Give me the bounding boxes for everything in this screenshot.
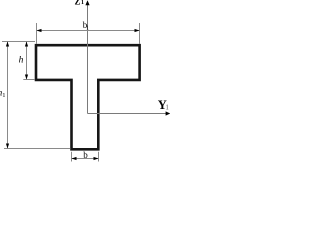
wire: extension line below stem left (71, 152, 73, 162)
svg-text:1: 1 (2, 92, 5, 99)
wire: dimension line b1 (37, 30, 140, 32)
svg-text:Z: Z (75, 0, 81, 7)
wire: dimension line b (bottom) (72, 158, 99, 160)
node Y axis arrowhead (166, 111, 171, 115)
wire: extension line below stem right (98, 152, 100, 162)
svg-text:b: b (83, 150, 88, 160)
wire: dimension line h (flange thickness) (26, 42, 28, 80)
node arrow b1 right (135, 29, 140, 32)
svg-text:1: 1 (86, 25, 89, 31)
node arrow h1 bottom (6, 144, 9, 149)
T-section outline (36, 45, 140, 149)
wire: extension line above flange right (139, 23, 141, 44)
node arrow h top (25, 42, 28, 47)
svg-text:h: h (19, 56, 24, 66)
svg-text:1: 1 (165, 104, 169, 112)
wire: extension line above flange left (36, 23, 38, 44)
wire: extension line top-left horizontal (2, 41, 35, 43)
node arrow b left (72, 157, 77, 160)
node arrow h1 top (6, 42, 9, 47)
node arrow h bottom (25, 75, 28, 80)
wire: dimension line h1 (full height, far left) (7, 42, 9, 149)
node arrow b right (94, 157, 99, 160)
wire: Y axis line (88, 113, 167, 115)
wire: extension line flange bottom left (23, 79, 35, 81)
svg-text:1: 1 (81, 0, 84, 6)
wire: extension line bottom (4, 148, 70, 150)
node Z axis arrowhead (85, 0, 89, 5)
wire: Z axis line (87, 5, 89, 114)
node arrow b1 left (37, 29, 42, 32)
